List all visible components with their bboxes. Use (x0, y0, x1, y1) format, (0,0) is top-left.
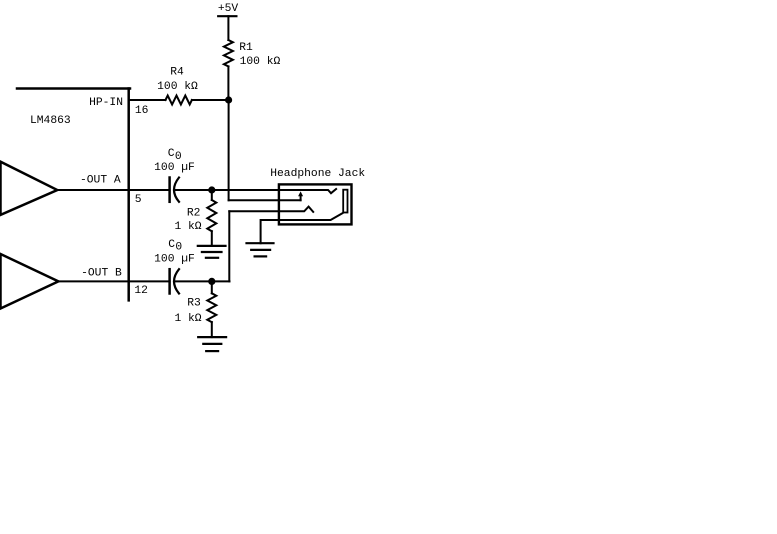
svg-text:100 kΩ: 100 kΩ (157, 81, 198, 93)
wire cap A to node (174, 189, 212, 191)
svg-text:12: 12 (134, 285, 148, 297)
wire node B to riser (212, 280, 230, 282)
wire tip line into jack (212, 189, 336, 193)
svg-text:R2: R2 (187, 207, 201, 219)
node junction R1/R4 (225, 96, 232, 103)
svg-text:-OUT A: -OUT A (80, 174, 121, 186)
headphone jack body (270, 168, 365, 224)
capacitor C0 (A) (154, 148, 195, 202)
svg-text:100 µF: 100 µF (154, 253, 195, 265)
resistor R4 (157, 66, 198, 104)
svg-text:R4: R4 (170, 66, 184, 78)
wire ring line with switch tick (229, 207, 313, 212)
node B dot (208, 278, 215, 285)
svg-text:16: 16 (135, 105, 149, 117)
wire sense: junction down (228, 100, 230, 200)
resistor R2 (174, 190, 216, 246)
svg-text:1 kΩ: 1 kΩ (174, 221, 201, 233)
op-amp A (1, 162, 58, 215)
svg-text:C: C (168, 148, 175, 160)
svg-text:R3: R3 (187, 297, 201, 309)
svg-text:100 kΩ: 100 kΩ (240, 56, 281, 68)
svg-text:0: 0 (175, 242, 182, 254)
wire sense: horizontal to arrow (229, 199, 301, 201)
wire cap B to node (174, 280, 212, 282)
svg-text:C: C (168, 239, 175, 251)
capacitor C0 (B) (154, 239, 195, 294)
jack plug bar (343, 190, 347, 213)
wire ring to OUT B (228, 211, 230, 281)
resistor R1 (224, 40, 281, 68)
wire out A to cap (57, 189, 169, 191)
svg-text:100 µF: 100 µF (154, 162, 195, 174)
svg-text:Headphone Jack: Headphone Jack (270, 168, 365, 180)
switch actuator arrow (298, 191, 303, 200)
power +5V (218, 3, 239, 16)
ground (R2) (198, 246, 226, 258)
wire R1 to junction (227, 66, 229, 100)
svg-text:1 kΩ: 1 kΩ (174, 313, 201, 325)
resistor R3 (174, 281, 216, 337)
wire R4 to junction (192, 99, 229, 101)
node A dot (208, 186, 215, 193)
svg-text:+5V: +5V (218, 3, 239, 15)
wire pin16 to R4 (129, 99, 166, 101)
wire +5V to R1 (227, 16, 229, 40)
op-amp B (1, 254, 59, 309)
IC LM4863 outline (17, 89, 130, 301)
jack sleeve wire (261, 213, 343, 243)
svg-text:-OUT B: -OUT B (81, 268, 122, 280)
svg-text:R1: R1 (239, 42, 253, 54)
ground (jack) (247, 243, 274, 256)
svg-text:5: 5 (135, 194, 142, 206)
svg-text:HP-IN: HP-IN (89, 97, 123, 109)
ground (R3) (198, 337, 226, 351)
svg-text:LM4863: LM4863 (30, 115, 71, 127)
wire out B to cap (58, 280, 169, 282)
